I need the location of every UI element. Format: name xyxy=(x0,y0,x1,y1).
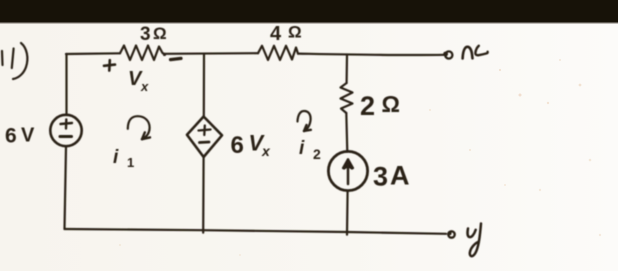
voltage source V1 6V xyxy=(50,115,81,146)
resistor 4ohm xyxy=(258,46,298,60)
resistor 2ohm xyxy=(341,83,353,113)
node label y (script) xyxy=(468,229,476,238)
terminal x xyxy=(445,51,452,58)
terminal y xyxy=(448,231,454,237)
svg-text:V: V xyxy=(21,125,35,147)
wire left vertical xyxy=(65,54,67,115)
dependent source U1 6Vx (diamond) xyxy=(187,117,222,158)
resistor R1 3ohm xyxy=(120,46,164,61)
svg-text:4: 4 xyxy=(270,23,282,45)
svg-text:1: 1 xyxy=(127,155,134,170)
node dot at resistor right end xyxy=(163,53,166,56)
svg-text:Ω: Ω xyxy=(153,24,167,43)
svg-text:3: 3 xyxy=(140,24,151,45)
loop current arrow i1 xyxy=(128,116,150,139)
wire right vertical upper xyxy=(346,55,349,84)
wire right vertical middle xyxy=(346,113,347,152)
svg-text:i: i xyxy=(299,138,305,159)
svg-text:2: 2 xyxy=(360,91,375,121)
svg-text:2: 2 xyxy=(313,146,321,162)
node label x (script) xyxy=(463,47,473,59)
polarity - of Vx xyxy=(171,58,182,59)
wire right vertical lower xyxy=(346,191,349,235)
wire middle vertical upper xyxy=(203,54,205,117)
wire bottom from left corner to y terminal xyxy=(65,229,447,234)
svg-text:Ω: Ω xyxy=(382,91,400,117)
svg-text:x: x xyxy=(140,79,149,94)
svg-text:i: i xyxy=(113,147,119,168)
polarity + of Vx xyxy=(104,65,115,66)
loop current arrow i2 xyxy=(298,111,311,131)
wire middle vertical lower xyxy=(202,157,205,233)
svg-text:x: x xyxy=(261,143,271,159)
svg-text:A: A xyxy=(390,161,410,191)
wire top from left corner to x terminal xyxy=(66,52,120,55)
label problem number 11) xyxy=(2,43,27,79)
svg-text:6: 6 xyxy=(231,132,244,159)
current source I1 3A xyxy=(328,151,367,190)
svg-text:3: 3 xyxy=(373,162,388,192)
svg-text:Ω: Ω xyxy=(288,23,302,42)
svg-text:6: 6 xyxy=(5,125,17,148)
